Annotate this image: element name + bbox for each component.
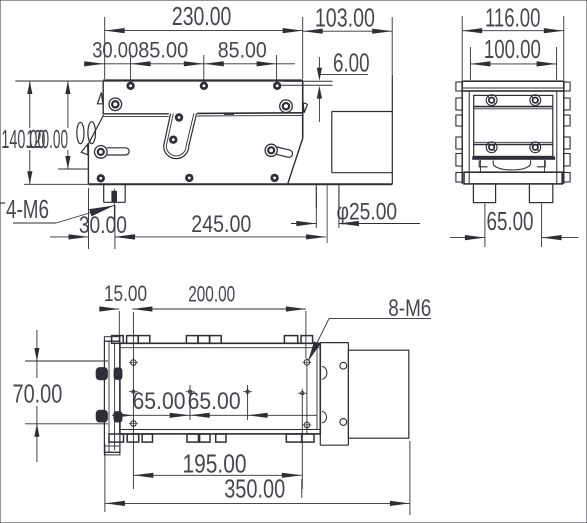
svg-text:65.00: 65.00 [487,206,534,236]
dimension 103.00 front top [303,3,393,75]
dimension 30.00 front bottom [50,188,135,249]
svg-text:4-M6: 4-M6 [6,194,49,224]
front view left flag mark [97,92,102,103]
svg-text:85.00: 85.00 [138,38,188,63]
front view right housing edge [391,74,393,184]
dimension 15.00 plan view [99,281,147,343]
plan view middle hole cross 2 [186,387,195,396]
plan view clamp knob upper-right [114,368,122,379]
side view screw bottom-left [486,142,497,153]
svg-text:103.00: 103.00 [315,3,375,33]
plan view bottom edge tabs [109,434,314,442]
plan view clamp knob upper-left [96,368,107,380]
svg-text:120.00: 120.00 [26,124,68,154]
plan view motor body rectangle [348,350,408,438]
side view right rail [557,81,564,184]
side view bottom bar [464,172,562,184]
svg-text:85.00: 85.00 [218,38,267,63]
side view screw bottom-right [530,142,541,153]
dimension 245.00 front bottom [115,211,326,240]
plan view middle hole cross 1 [129,387,138,396]
plan view motor flange hole lower [340,419,347,426]
side view left rail [462,81,469,184]
svg-text:30.00: 30.00 [79,212,127,239]
dimension 120.00 front left [26,81,88,169]
svg-text:15.00: 15.00 [104,281,147,306]
plan view motor flange [320,343,348,446]
plan view motor flange hole upper [340,362,347,369]
front view body bottom screw 3 [270,174,278,182]
front view clamp handle right [265,144,292,157]
front view socket screw left [109,98,122,111]
front view right flag mark [303,103,307,113]
svg-text:100.00: 100.00 [484,34,541,64]
side view left clamp tabs [456,82,462,182]
front view socket screw right [280,100,293,113]
plan view clamp knob lower-left [96,410,107,422]
side view dark slide strip [472,156,555,159]
front view body bottom screw 1 [97,174,105,182]
dimension 6.00 gib thickness [317,48,370,123]
plan view clamp knob lower-right [114,412,122,422]
front view bottom-right chamfer [288,138,303,183]
plan view corner hole top-left [129,358,138,367]
svg-text:70.00: 70.00 [13,379,63,409]
front view top plate screw 1 [126,82,134,90]
front view left knob ellipse 2 [88,122,96,144]
dimension 230.00 front top [105,1,303,79]
front view top plate screw 2 [200,82,208,90]
svg-text:245.00: 245.00 [191,211,251,238]
callout 4-M6 foot holes [0,194,114,224]
front view slot screw lower [169,136,177,144]
front view U-slot outer wall [164,113,197,158]
dimension phi 25.00 [291,187,420,228]
svg-text:6.00: 6.00 [333,48,370,78]
dimension 195.00 plan view [133,449,301,499]
front view body top edge double line [103,113,303,117]
plan view corner hole top-right 8-M6 target [303,358,312,367]
plan view corner hole bottom-left [129,419,138,428]
dimension 140.00 front left [1,81,103,184]
dimension 200.00 plan view [132,282,306,359]
plan view table outline [120,343,320,434]
front view top edge notch dash [224,113,234,115]
plan view middle hole cross 4 [298,389,307,398]
front view lower left flag mark [81,144,88,155]
dimension 30.00 85.00 85.00 screw spacing [84,38,295,83]
svg-text:350.00: 350.00 [224,474,285,504]
front view top plate screw 3 [273,82,281,90]
side view inner plate [474,95,553,156]
front view foot with M6 hole [104,184,126,221]
front view clamp handle left [95,146,130,159]
svg-text:65.00: 65.00 [188,388,241,415]
plan view top edge tabs [112,336,313,344]
dimension 65.00 65.00 plan view [112,312,317,489]
plan view left end cap [104,337,120,455]
side view tongue profile [479,160,545,172]
dimension 100.00 side view [470,34,556,80]
svg-text:116.00: 116.00 [485,3,541,33]
front view bottom edge [88,183,392,185]
svg-text:8-M6: 8-M6 [388,295,431,322]
side view top bar [462,81,564,91]
svg-text:65.00: 65.00 [133,388,186,415]
front view motor block rectangle [332,112,393,173]
front view phi25 cylinder below base [316,184,339,243]
side view screw top-left [486,95,497,106]
side view right foot [529,184,552,203]
front view U-slot inner wall [166,113,194,155]
front view 6mm gib lines [278,81,333,85]
dimension 116.00 side view [462,3,564,81]
side view left foot [473,184,495,203]
plan view corner hole bottom-right [303,421,312,430]
front view left edge vertical [87,144,89,185]
front view left knob ellipse 1 [77,122,84,143]
svg-text:200.00: 200.00 [188,282,235,307]
callout 8-M6 plan view [308,295,431,362]
plan view middle hole cross 3 [243,387,252,396]
dimension 70.00 plan view [13,330,109,462]
side view screw top-right [530,95,541,106]
svg-text:φ25.00: φ25.00 [337,199,398,226]
dimension 350.00 plan view [105,441,410,515]
side view right clamp tabs [564,82,570,182]
front view slot screw upper [175,113,183,121]
front view top plate outline [103,81,303,139]
dimension 65.00 side view feet [450,204,579,248]
svg-text:30.00: 30.00 [92,38,138,63]
svg-text:230.00: 230.00 [172,1,231,31]
front view body bottom screw 2 [185,174,193,182]
front view left slant edge [88,115,103,144]
